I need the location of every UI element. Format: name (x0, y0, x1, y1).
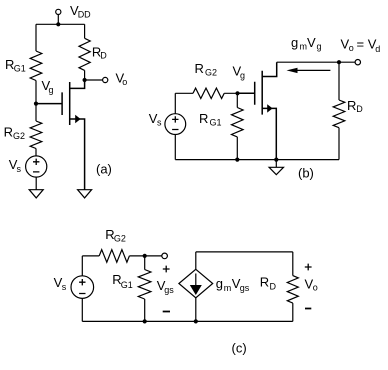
svg-text:g: g (291, 35, 298, 50)
svg-text:D: D (356, 104, 363, 114)
svg-text:G1: G1 (14, 64, 26, 74)
svg-text:R: R (260, 275, 269, 290)
svg-text:o: o (313, 283, 318, 293)
svg-text:g: g (317, 42, 322, 52)
svg-text:R: R (347, 98, 356, 113)
svg-text:s: s (17, 164, 22, 174)
svg-text:gs: gs (164, 285, 174, 295)
svg-text:G1: G1 (121, 280, 133, 290)
svg-text:(c): (c) (232, 341, 247, 356)
svg-text:G2: G2 (205, 68, 217, 78)
svg-text:D: D (270, 282, 277, 292)
svg-text:s: s (62, 282, 67, 292)
svg-text:D: D (100, 51, 107, 61)
svg-text:d: d (375, 44, 380, 54)
svg-text:gs: gs (240, 283, 250, 293)
svg-text:g: g (216, 276, 223, 291)
svg-text:(b): (b) (298, 166, 314, 181)
svg-text:G2: G2 (13, 131, 25, 141)
svg-text:G1: G1 (210, 117, 222, 127)
svg-text:g: g (240, 70, 245, 80)
svg-text:o: o (122, 77, 127, 87)
svg-text:(a): (a) (96, 162, 112, 177)
svg-text:G2: G2 (114, 233, 126, 243)
svg-text:V: V (307, 35, 316, 50)
svg-text:R: R (4, 125, 13, 140)
svg-text:DD: DD (78, 10, 91, 20)
svg-text:s: s (157, 118, 162, 128)
svg-text:g: g (49, 85, 54, 95)
svg-text:o: o (349, 43, 354, 53)
svg-text:=: = (357, 37, 365, 52)
svg-text:m: m (224, 283, 232, 293)
svg-text:R: R (195, 61, 204, 76)
svg-text:R: R (199, 111, 208, 126)
svg-text:m: m (300, 42, 308, 52)
